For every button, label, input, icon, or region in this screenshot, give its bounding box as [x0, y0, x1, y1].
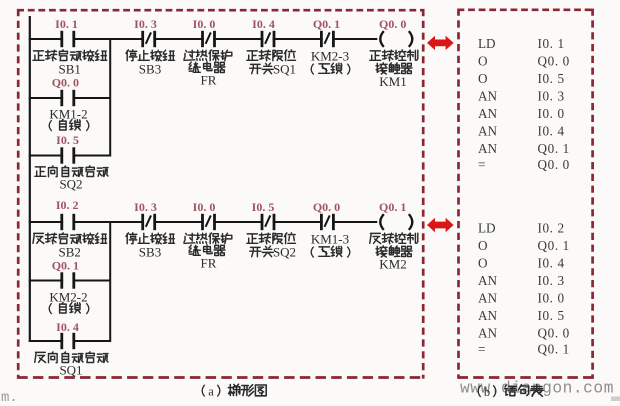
svg-text:Q0. 0: Q0. 0	[52, 76, 79, 90]
label SB3 停止按钮	[126, 50, 175, 77]
statement list block 1 (rung 1 logic)	[478, 36, 570, 172]
address label I0. 3	[134, 200, 157, 214]
statement list dashed frame (right box)	[458, 9, 594, 379]
svg-text:SQ2: SQ2	[59, 177, 82, 192]
address label Q0. 0	[52, 76, 79, 90]
svg-text:=: =	[478, 157, 485, 172]
svg-text:KM2-2: KM2-2	[49, 290, 87, 305]
svg-text:I0. 3: I0. 3	[538, 89, 565, 104]
contact I0.2 (NO, reverse start button SB2)	[62, 214, 74, 230]
svg-text:LD: LD	[478, 36, 496, 51]
svg-text:I0. 3: I0. 3	[134, 17, 157, 31]
svg-text:Q0. 0: Q0. 0	[538, 326, 570, 341]
svg-text:O: O	[478, 256, 488, 271]
address label Q0. 0	[379, 17, 406, 31]
contact I0.3 (NC, stop button SB3) rung2	[143, 214, 155, 230]
svg-text:Q0. 1: Q0. 1	[538, 141, 570, 156]
svg-text:AN: AN	[478, 106, 498, 121]
svg-text:Q0. 1: Q0. 1	[379, 200, 406, 214]
svg-text:FR: FR	[201, 73, 217, 88]
junction: rung 2 branch join vertical	[109, 221, 111, 342]
wire rung 2 parallel branch (SQ1 auto start)	[29, 340, 111, 342]
svg-text:AN: AN	[478, 326, 498, 341]
label KM2-2 自锁	[49, 290, 89, 315]
svg-text:I0. 3: I0. 3	[538, 273, 565, 288]
wire rung 2 parallel branch (KM2-2 self-hold)	[29, 280, 111, 282]
contact I0.4 (NO, reverse auto start SQ1)	[62, 333, 74, 349]
address label Q0. 1	[379, 200, 406, 214]
svg-text:a: a	[208, 385, 214, 399]
label FR 过热保护继电器	[184, 50, 232, 88]
watermark www.diangon.com	[460, 380, 614, 398]
svg-text:I0. 4: I0. 4	[56, 320, 79, 334]
svg-text:I0. 4: I0. 4	[538, 124, 565, 139]
red double arrow rung1 <-> block1	[427, 36, 454, 50]
svg-text:I0. 0: I0. 0	[193, 17, 216, 31]
contact I0.4 (NC, forward limit switch SQ1)	[262, 31, 274, 47]
svg-text:I0. 0: I0. 0	[193, 200, 216, 214]
svg-text:AN: AN	[478, 273, 498, 288]
svg-text:SB2: SB2	[58, 245, 80, 260]
caption (b) statement list	[478, 385, 543, 399]
svg-text:SQ2: SQ2	[273, 245, 296, 260]
svg-text:I0. 5: I0. 5	[538, 308, 565, 323]
contact I0.5 (NC, limit switch SQ2)	[262, 214, 274, 230]
label SQ1 正转限位开关	[247, 50, 296, 77]
svg-text:KM2: KM2	[379, 257, 406, 272]
svg-text:Q0. 0: Q0. 0	[538, 157, 570, 172]
contact I0.5 (NO, forward auto start SQ2)	[62, 147, 74, 163]
address label I0. 2	[56, 198, 79, 212]
caption (a) ladder diagram	[202, 384, 266, 398]
svg-text:Q0. 1: Q0. 1	[538, 342, 570, 357]
gray speck bottom-right	[611, 397, 620, 402]
label KM1-2 自锁	[49, 107, 89, 132]
svg-text:I0. 5: I0. 5	[252, 200, 275, 214]
contact I0.1 (NO, forward start button SB1)	[62, 31, 74, 47]
svg-text:m.: m.	[1, 390, 18, 401]
svg-text:KM1: KM1	[379, 74, 406, 89]
left power rail	[29, 16, 31, 342]
svg-text:LD: LD	[478, 221, 496, 236]
wire rung 1	[29, 38, 378, 40]
svg-text:SQ1: SQ1	[59, 363, 82, 378]
svg-text:=: =	[478, 342, 485, 357]
svg-text:I0. 2: I0. 2	[56, 198, 79, 212]
svg-text:Q0. 0: Q0. 0	[538, 54, 570, 69]
label FR 过热保护继电器 rung2	[184, 233, 232, 271]
coil Q0.1 (reverse contactor KM2)	[380, 214, 412, 230]
contact I0.0 (NC, thermal relay FR)	[203, 31, 215, 47]
svg-text:Q0. 1: Q0. 1	[52, 259, 79, 273]
svg-text:Q0. 1: Q0. 1	[313, 17, 340, 31]
statement list block 2 (rung 2 logic)	[478, 221, 570, 357]
address label I0. 3	[134, 17, 157, 31]
wire rung 2	[29, 221, 378, 223]
address label I0. 4	[56, 320, 79, 334]
address label I0. 4	[252, 17, 275, 31]
label SB1 正转启动按钮	[33, 50, 107, 77]
svg-text:O: O	[478, 54, 488, 69]
label SQ2 正向自动启动	[35, 166, 108, 192]
address label I0. 0	[193, 17, 216, 31]
address label Q0. 1	[52, 259, 79, 273]
svg-text:KM1-3: KM1-3	[311, 232, 349, 247]
label KM2-3 互锁	[311, 49, 350, 75]
label SQ2 正转限位开关 rung2	[247, 233, 296, 260]
label SB2 反转启动按钮	[33, 233, 107, 260]
svg-text:Q0. 1: Q0. 1	[538, 238, 570, 253]
red double arrow rung2 <-> block2	[427, 218, 454, 232]
svg-text:I0. 1: I0. 1	[538, 36, 565, 51]
svg-text:SB3: SB3	[139, 62, 161, 77]
address label Q0. 1	[313, 17, 340, 31]
coil Q0.0 (forward contactor KM1)	[380, 31, 412, 47]
svg-text:SB1: SB1	[58, 62, 80, 77]
contact Q0.1 (NO, self-hold KM2-2)	[62, 272, 74, 288]
stray watermark fragment bottom-left	[1, 390, 18, 406]
contact I0.0 (NC, thermal relay FR) rung2	[203, 214, 215, 230]
address label I0. 0	[193, 200, 216, 214]
wire rung 1 parallel branch (KM1-2 self-hold)	[29, 97, 111, 99]
label KM1 正转控制接触器	[370, 50, 418, 89]
address label I0. 1	[55, 17, 78, 31]
svg-text:I0. 1: I0. 1	[55, 17, 78, 31]
svg-text:KM1-2: KM1-2	[49, 107, 87, 122]
svg-text:Q0. 0: Q0. 0	[379, 17, 406, 31]
svg-text:AN: AN	[478, 124, 498, 139]
address label I0. 5	[252, 200, 275, 214]
svg-text:O: O	[478, 71, 488, 86]
svg-text:KM2-3: KM2-3	[311, 49, 349, 64]
svg-text:I0. 0: I0. 0	[538, 106, 565, 121]
svg-text:I0. 4: I0. 4	[252, 17, 275, 31]
svg-text:I0. 5: I0. 5	[538, 71, 565, 86]
label SB3 停止按钮 rung2	[126, 233, 175, 260]
contact Q0.0 (NC, interlock KM1-3)	[321, 214, 333, 230]
label SQ1 反向自动启动	[35, 352, 108, 378]
junction: rung 1 branch join vertical	[109, 38, 111, 157]
svg-text:AN: AN	[478, 141, 498, 156]
ladder diagram dashed frame (left box)	[17, 9, 424, 379]
label KM1-3 互锁	[311, 232, 350, 258]
label KM2 反转控制接触器	[370, 233, 418, 272]
svg-text:FR: FR	[201, 256, 217, 271]
address label I0. 5	[56, 133, 79, 147]
contact Q0.0 (NO, self-hold KM1-2)	[62, 90, 74, 106]
svg-text:I0. 3: I0. 3	[134, 200, 157, 214]
svg-text:Q0. 0: Q0. 0	[313, 200, 340, 214]
svg-text:AN: AN	[478, 308, 498, 323]
svg-text:O: O	[478, 238, 488, 253]
svg-text:AN: AN	[478, 291, 498, 306]
address label Q0. 0	[313, 200, 340, 214]
svg-text:AN: AN	[478, 89, 498, 104]
svg-text:b: b	[484, 385, 490, 399]
svg-text:SQ1: SQ1	[273, 62, 296, 77]
contact Q0.1 (NC, interlock KM2-3)	[321, 31, 333, 47]
svg-text:SB3: SB3	[139, 245, 161, 260]
svg-text:I0. 5: I0. 5	[56, 133, 79, 147]
contact I0.3 (NC, stop button SB3)	[143, 31, 155, 47]
svg-text:I0. 4: I0. 4	[538, 256, 565, 271]
svg-text:I0. 2: I0. 2	[538, 221, 565, 236]
wire rung 1 parallel branch (SQ2 auto start)	[29, 155, 111, 157]
svg-text:I0. 0: I0. 0	[538, 291, 565, 306]
